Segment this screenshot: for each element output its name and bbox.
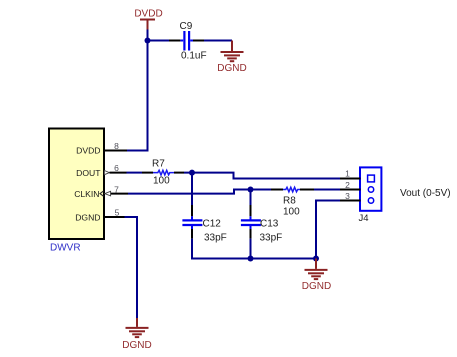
svg-text:33pF: 33pF	[260, 233, 283, 244]
ground DGND (bottom left)	[122, 318, 151, 351]
IC DWVR	[49, 129, 104, 254]
wire: DOUT pin to R7	[127, 172, 143, 174]
svg-text:5: 5	[115, 207, 120, 217]
capacitor C12	[182, 205, 226, 244]
resistor R7	[142, 159, 184, 187]
svg-text:0.1uF: 0.1uF	[181, 51, 207, 62]
svg-text:C12: C12	[203, 219, 222, 230]
connector J4	[340, 167, 381, 224]
svg-text:100: 100	[153, 176, 170, 187]
svg-text:DVDD: DVDD	[134, 8, 162, 19]
pin 8 (DVDD)	[76, 141, 127, 156]
node B: CLKIN/C13/R8 junction	[248, 187, 254, 193]
svg-text:CLKIN: CLKIN	[74, 189, 99, 199]
svg-text:DGND: DGND	[217, 63, 246, 74]
svg-text:DGND: DGND	[75, 212, 100, 222]
pin 7 (CLKIN)	[74, 184, 128, 199]
wire: DVDD vertical to pin 8	[127, 30, 148, 151]
power port DVDD	[134, 8, 162, 29]
wire: R8 to J4 pin 2	[314, 189, 340, 191]
ground DGND (top)	[217, 41, 246, 75]
svg-text:DVDD: DVDD	[76, 146, 100, 156]
wire: R7 to step to J4 pin 1	[184, 173, 340, 179]
pin 6 (DOUT)	[76, 163, 126, 178]
wire: DGND pin 5 down	[125, 217, 138, 318]
wire: J4 pin 3 down to ground rail	[316, 201, 340, 259]
wire: C9 to DGND	[204, 40, 232, 42]
svg-text:DGND: DGND	[302, 281, 331, 292]
capacitor C13	[241, 205, 282, 244]
svg-text:7: 7	[114, 184, 119, 194]
svg-text:8: 8	[114, 141, 119, 151]
svg-text:DOUT: DOUT	[76, 168, 101, 178]
capacitor C9	[169, 21, 207, 62]
svg-text:3: 3	[345, 191, 350, 201]
svg-text:C9: C9	[180, 21, 193, 32]
wire: CLKIN pin to junction B	[128, 190, 251, 194]
wire: junction B down to C13	[250, 190, 252, 206]
ground DGND (bottom right)	[302, 259, 331, 293]
svg-text:R8: R8	[283, 196, 296, 207]
svg-text:33pF: 33pF	[204, 233, 227, 244]
svg-text:100: 100	[283, 207, 300, 218]
wire: junction A down to C12	[191, 173, 193, 205]
node: DVDD junction	[145, 38, 151, 44]
node A: DOUT/R7/C12 junction	[189, 170, 195, 176]
svg-text:DGND: DGND	[122, 340, 151, 351]
svg-text:R7: R7	[152, 159, 165, 170]
svg-text:DWVR: DWVR	[50, 243, 81, 254]
wire: junction B to R8	[251, 189, 272, 191]
svg-text:2: 2	[345, 180, 350, 190]
node C: C13/ground rail junction	[248, 256, 254, 262]
wire: C13 bottom to ground rail	[250, 239, 252, 259]
pin 5 (DGND)	[75, 207, 124, 222]
svg-text:J4: J4	[359, 213, 369, 224]
wire: C12 bottom to ground rail	[192, 239, 316, 259]
svg-text:C13: C13	[260, 219, 279, 230]
svg-text:1: 1	[345, 169, 350, 179]
svg-text:Vout (0-5V): Vout (0-5V)	[400, 188, 451, 199]
resistor R8	[271, 187, 314, 217]
wire: junction to C9	[148, 40, 171, 42]
node D: ground junction	[313, 256, 319, 262]
svg-text:6: 6	[114, 163, 119, 173]
